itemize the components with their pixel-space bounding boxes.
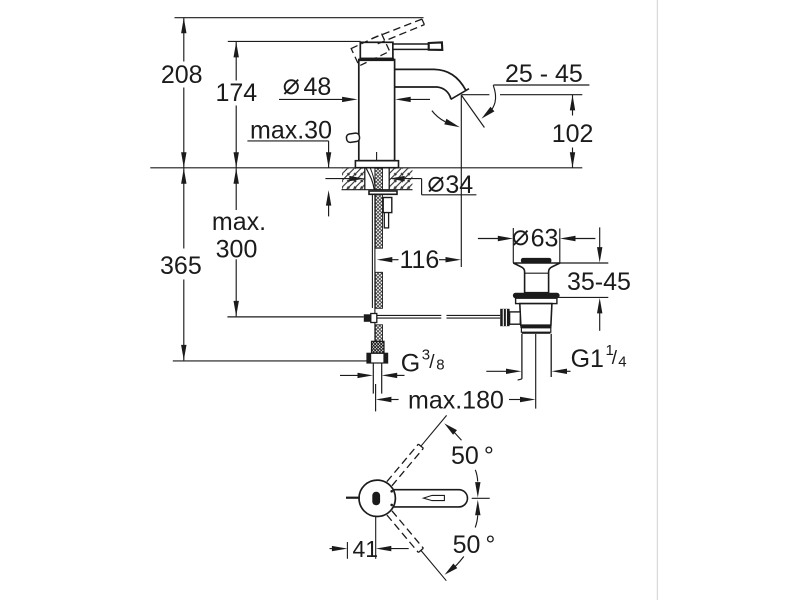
drain O-ring — [513, 293, 560, 299]
top view pop-up knob tick — [346, 497, 360, 499]
top view lever inner slot — [424, 495, 445, 500]
hose nut — [367, 353, 388, 363]
dim O63 arrows and extension lines — [478, 238, 499, 240]
shank hole edges — [364, 168, 366, 190]
rod double line to drain (segment 2) — [447, 314, 501, 316]
svg-text:365: 365 — [160, 252, 202, 280]
dim max.180 extension lines — [375, 384, 377, 411]
shank guide block lower — [384, 213, 388, 228]
pop-up rod knob on body left — [346, 133, 360, 143]
spout outlet level line — [461, 94, 489, 96]
svg-text:34: 34 — [445, 171, 473, 199]
braided hose inside hole — [375, 168, 383, 189]
shank guide block — [383, 198, 392, 213]
top view joint dots — [390, 490, 393, 493]
svg-text:208: 208 — [161, 61, 203, 89]
top view faucet body circle — [359, 480, 395, 516]
svg-text:max.180: max.180 — [408, 387, 504, 415]
drain flange under band — [516, 298, 557, 303]
tailpipe break mark — [518, 379, 522, 380]
svg-text:max.: max. — [212, 208, 266, 236]
drain flange — [513, 263, 560, 293]
pull rod vertical line — [371, 194, 373, 308]
dim G3/8 arrows — [340, 374, 359, 376]
dim diameter 48 symbol and text — [285, 80, 298, 93]
svg-text:35-45: 35-45 — [567, 268, 631, 296]
dim O48 arrows — [279, 98, 343, 100]
dashed raised lever position — [372, 19, 425, 44]
dim max.180 arrows — [390, 399, 399, 401]
hose end reference line (365 level) — [173, 360, 367, 362]
svg-text:116: 116 — [399, 246, 439, 274]
faucet body cylinder — [359, 60, 395, 161]
dim 25-45 right arc leader — [490, 85, 495, 111]
rod double line to drain (segment 1) — [377, 314, 442, 316]
drain knurled knob — [500, 309, 509, 326]
drain body — [520, 304, 552, 326]
drain body bottom band — [520, 325, 551, 328]
rod clamp white block — [371, 314, 377, 323]
spout lower outline — [394, 87, 451, 99]
dashed raised head outline — [351, 34, 390, 66]
dim max.30 lower arrow below deck — [328, 205, 330, 216]
lever handle bar (horizontal position) — [393, 44, 429, 49]
spout upper outline — [394, 69, 466, 90]
spout outlet face — [451, 89, 469, 100]
faint image border line — [656, 0, 658, 600]
faucet centerline pull rod inside body — [376, 152, 378, 166]
dim 41 arrows — [330, 548, 334, 550]
lever handle paddle tip — [429, 42, 443, 50]
top view cartridge slot — [372, 492, 380, 505]
dim 25-45 left arc leader — [432, 111, 445, 122]
deck hatched section right of hole — [389, 169, 412, 190]
dim 174 vertical line — [235, 41, 237, 80]
hose threaded end — [372, 341, 385, 353]
hose curl line in hole — [366, 168, 374, 189]
svg-text:4: 4 — [618, 354, 626, 371]
svg-text:174: 174 — [215, 79, 257, 107]
svg-text:G1: G1 — [571, 345, 604, 373]
dim 365 vertical line — [183, 168, 185, 248]
drain plug cap — [521, 258, 552, 263]
dim G1 1/4 arrows — [486, 370, 507, 372]
dim 35-45 extension lines — [558, 262, 609, 264]
svg-text:300: 300 — [216, 236, 258, 264]
dashed lever rotated down 50 deg — [387, 511, 424, 553]
braided hose mid section — [375, 272, 382, 308]
braided hose lower section — [375, 325, 382, 342]
dim 35-45 arrows — [599, 227, 601, 248]
dim 41 extension lines — [346, 542, 348, 559]
svg-text:102: 102 — [552, 120, 594, 148]
escutcheon base plate — [355, 161, 398, 168]
lower 50 deg arc segment near lever — [450, 557, 464, 572]
lever down 50 thin extension line — [421, 550, 446, 580]
dim 116 arrows — [391, 259, 399, 261]
dim O63 symbol and text — [514, 231, 527, 244]
svg-text:48: 48 — [304, 73, 332, 101]
faucet head (cartridge housing) — [360, 42, 393, 58]
dim 102 vertical line — [572, 95, 574, 116]
rod clamp black block — [364, 314, 371, 322]
svg-text:8: 8 — [436, 357, 444, 374]
spout stream direction line — [461, 95, 484, 128]
faucet head thick base band — [359, 58, 393, 61]
svg-text:63: 63 — [531, 224, 559, 252]
deck bottom line — [342, 189, 413, 191]
lever up 50 thin extension line — [421, 415, 447, 446]
deck top line — [150, 167, 582, 169]
dashed lever rotated up 50 deg — [387, 444, 424, 486]
upper 50 deg arc segment near lever — [450, 428, 462, 441]
dim O34 arrows — [325, 178, 350, 180]
dim max.300 vertical line — [235, 168, 237, 210]
dim O34 leader step and underline — [421, 179, 423, 195]
deck hatched section left of hole — [342, 169, 365, 190]
G3/8 tube end — [372, 363, 374, 394]
dim O34 symbol and text — [429, 178, 442, 191]
pop-up rod horizontal left section — [227, 316, 363, 318]
mounting washer under deck — [369, 191, 397, 194]
top reference line (lever raised height) — [175, 17, 424, 19]
svg-text:50 °: 50 ° — [451, 442, 494, 470]
spout tip vertical extension line (116 dim) — [460, 95, 462, 267]
svg-text:/: / — [429, 352, 435, 373]
hose left edge line — [374, 194, 376, 341]
drain tailpipe — [521, 334, 523, 379]
svg-text:G: G — [401, 350, 420, 378]
svg-text:25 - 45: 25 - 45 — [505, 60, 583, 88]
braided hose upper section — [375, 194, 382, 248]
174 reference line (body top level) — [228, 40, 361, 42]
top view lever handle outline — [393, 490, 467, 507]
drain nut white band — [521, 328, 550, 332]
svg-text:41: 41 — [353, 536, 379, 562]
svg-text:/: / — [612, 348, 618, 369]
dim 208 vertical line — [183, 18, 185, 62]
top view centerline — [472, 497, 490, 499]
upper 50 deg arc segment near centerline — [475, 470, 477, 482]
drain rod connector — [510, 312, 521, 324]
top view circle center extension down — [375, 516, 377, 558]
svg-text:50 °: 50 ° — [453, 531, 496, 559]
lower 50 deg arc segment near centerline — [475, 515, 478, 527]
